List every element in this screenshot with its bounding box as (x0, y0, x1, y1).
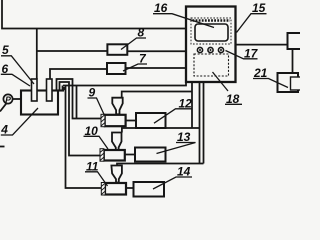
leader 6 (1, 74, 30, 86)
svg-text:16: 16 (154, 1, 168, 15)
level sensor 6 (47, 79, 53, 101)
svg-text:6: 6 (2, 62, 9, 76)
button 17 (218, 47, 223, 52)
remote box 21 (278, 73, 299, 92)
svg-text:5: 5 (2, 43, 9, 57)
leader 10 (84, 136, 109, 149)
svg-text:10: 10 (85, 124, 99, 138)
box 8 (107, 44, 127, 55)
weigh box 12 (136, 113, 166, 128)
weigh box 14 (134, 182, 165, 197)
wire (126, 67, 187, 69)
wire (126, 187, 134, 189)
wire (37, 50, 108, 52)
svg-text:13: 13 (177, 130, 191, 144)
svg-text:18: 18 (226, 92, 240, 106)
leader 5 (1, 56, 34, 84)
svg-text:11: 11 (86, 159, 99, 173)
wire (13, 98, 21, 100)
svg-text:17: 17 (244, 46, 259, 60)
wire (36, 29, 38, 80)
wire (127, 50, 186, 52)
wire (76, 86, 78, 119)
inner box 21 (291, 77, 303, 90)
wire (191, 82, 193, 128)
keypad 18 (194, 54, 229, 76)
leader 11 (85, 172, 108, 186)
remote box upper right (288, 33, 303, 49)
valve 10 (100, 149, 125, 162)
pump P (3, 94, 12, 104)
wire (50, 69, 107, 79)
wire (122, 128, 200, 133)
weigh box 13 (135, 148, 166, 162)
wire (63, 82, 186, 86)
leader 12 (154, 109, 192, 123)
wire (236, 44, 288, 46)
wire (203, 82, 205, 164)
wire (62, 86, 64, 91)
svg-text:21: 21 (253, 66, 268, 80)
wire (60, 82, 101, 156)
leader 4 (1, 108, 38, 135)
node junction (62, 87, 65, 90)
valve 11 (101, 183, 126, 196)
svg-text:P: P (5, 94, 11, 104)
svg-text:4: 4 (0, 122, 8, 136)
wire (125, 154, 135, 156)
wire (2, 0, 186, 29)
leader 7 (123, 64, 147, 71)
level sensor 5 (32, 79, 38, 101)
button (197, 47, 202, 52)
pump inlet (0, 103, 7, 112)
box 7 (107, 63, 126, 74)
scan mark (0, 146, 5, 148)
vent dot row (193, 19, 231, 22)
controller 15 (186, 7, 236, 83)
leader 8 (121, 38, 146, 50)
wire (57, 79, 102, 119)
wire (117, 164, 204, 166)
hopper 11 (111, 166, 122, 183)
hopper 9 (112, 98, 122, 115)
svg-text:12: 12 (179, 97, 193, 111)
leader 18 (225, 103, 242, 105)
leader 13 (157, 143, 196, 154)
button (208, 47, 213, 52)
leader 21 (253, 79, 288, 88)
leader lines (1, 14, 288, 189)
wire (126, 120, 136, 122)
svg-text:14: 14 (177, 165, 191, 179)
svg-text:8: 8 (138, 26, 145, 40)
wire (122, 92, 192, 98)
leader 16 (153, 14, 214, 28)
leader 17 (226, 51, 258, 59)
hopper 10 (112, 133, 122, 151)
svg-text:9: 9 (89, 86, 96, 100)
leader 15 (237, 14, 267, 33)
tank 4 (21, 91, 64, 115)
wire (66, 86, 102, 189)
valve 9 (101, 114, 126, 126)
leader 14 (153, 177, 192, 189)
leader 9 (88, 98, 105, 116)
wire (199, 82, 201, 164)
wire (292, 49, 294, 77)
svg-text:15: 15 (252, 1, 266, 15)
display 16 (195, 24, 228, 41)
